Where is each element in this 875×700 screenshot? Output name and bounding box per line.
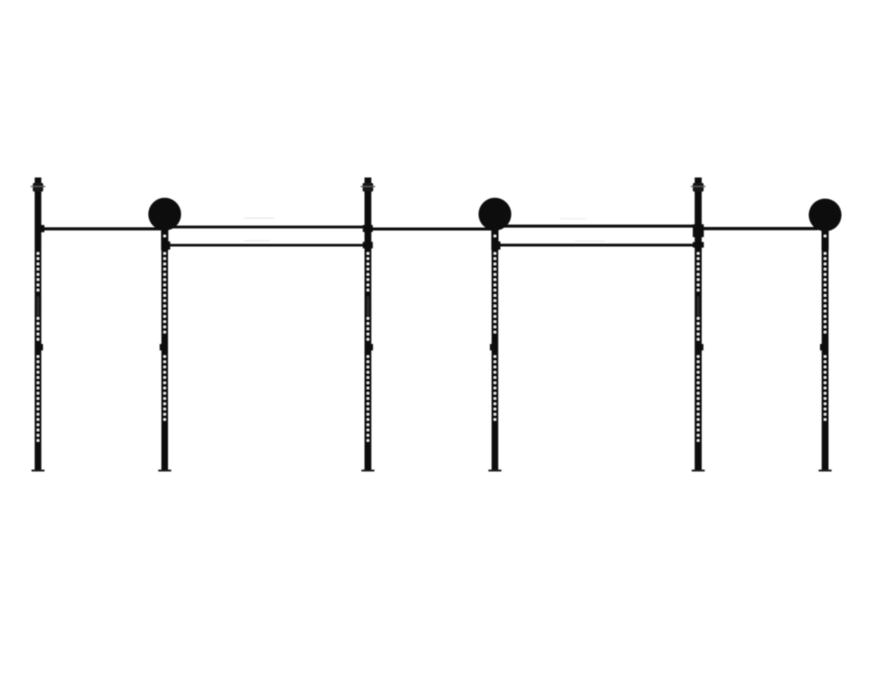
hole strip upper post P6 <box>824 252 826 333</box>
top hole post P2 <box>164 235 166 237</box>
joint tab on post P1 <box>41 344 43 350</box>
upright post P3 <box>365 178 372 471</box>
pin through collar P3 <box>361 186 376 187</box>
foot plate P5 <box>692 470 705 472</box>
top crossbar bay 4 <box>495 225 699 228</box>
bracket lower bar at post P4 <box>496 241 500 249</box>
ball target 1 <box>148 198 181 231</box>
hole strip lower post P2 <box>164 355 166 420</box>
joint tab on post P4 <box>490 344 492 350</box>
hole strip upper post P4 <box>494 252 496 333</box>
lower pull-up bar bay 4 <box>495 244 698 247</box>
top crossbar bay 2 <box>164 226 369 229</box>
gloss highlight on post P5 <box>697 296 699 316</box>
hole strip upper post P1 <box>37 252 39 291</box>
pin through collar P5 <box>691 186 706 187</box>
top hole post P4 <box>494 235 496 237</box>
joint tab on post P3 <box>371 344 373 350</box>
hole strip upper post P3 <box>367 252 369 291</box>
faint reflection above bay4 top bar <box>560 218 586 219</box>
pin through collar P1 <box>31 186 46 187</box>
foot plate P6 <box>819 470 832 472</box>
joint tab on post P2 <box>160 344 162 350</box>
hole strip lower post P3 <box>367 355 369 441</box>
collar on post P5 <box>693 183 704 192</box>
foot plate P1 <box>32 470 45 472</box>
brackets at post P3 <box>363 225 373 232</box>
upright post P5 <box>695 178 702 471</box>
collar on post P1 <box>33 183 43 192</box>
lower pull-up bar bay 2 <box>166 244 369 247</box>
top hole post P6 <box>824 235 826 237</box>
collar on post P3 <box>363 183 374 192</box>
upright post P1 <box>35 178 42 471</box>
target stem P2 <box>161 214 168 250</box>
hole strip upper post P2 <box>164 252 166 333</box>
hole strip upper post P5 <box>697 252 699 291</box>
faint reflection above bay4 lower bar <box>575 241 605 242</box>
ball target 3 <box>809 199 842 232</box>
gloss highlight on post P3 <box>367 296 369 316</box>
hole strip lower post P6 <box>824 355 826 420</box>
ball target 2 <box>479 198 512 231</box>
faint reflection above bay2 lower bar <box>244 240 270 241</box>
gloss highlight on post P1 <box>37 296 39 316</box>
top crossbar bay 1 <box>41 227 165 230</box>
target stem P6 <box>822 214 829 250</box>
bracket top bar at post P1 <box>40 225 45 232</box>
hole strip lower post P4 <box>494 355 496 420</box>
hole strip middle post P1 <box>37 317 39 340</box>
bracket lower bar at post P2 <box>166 241 170 249</box>
foot plate P4 <box>488 470 501 472</box>
upright post P4 (target post) <box>492 222 499 470</box>
joint tab on post P6 <box>820 344 822 350</box>
target stem P4 <box>491 214 498 250</box>
top crossbar bay 5 <box>698 227 818 230</box>
hole strip middle post P5 <box>697 317 699 340</box>
hole strip middle post P3 <box>367 317 369 340</box>
joint tab on post P5 <box>701 344 703 350</box>
upright post P6 (target post) <box>822 222 829 470</box>
hole strip lower post P5 <box>697 355 699 441</box>
brackets at post P5 <box>693 224 704 237</box>
hole strip lower post P1 <box>37 355 39 441</box>
foot plate P3 <box>361 470 374 472</box>
faint reflection above bay2 top bar <box>244 218 274 219</box>
upright post P2 (target post) <box>161 222 168 470</box>
foot plate P2 <box>158 470 171 472</box>
top crossbar bay 3 <box>368 228 495 231</box>
